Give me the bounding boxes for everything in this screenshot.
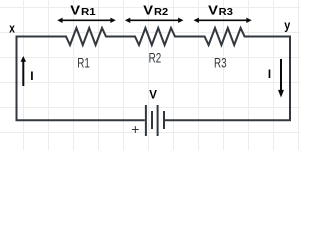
svg-text:V: V: [143, 2, 153, 17]
svg-text:y: y: [284, 18, 291, 33]
svg-text:x: x: [9, 21, 15, 36]
svg-text:R1: R1: [77, 55, 90, 70]
svg-text:+: +: [131, 121, 139, 137]
svg-text:R2: R2: [149, 50, 162, 65]
svg-text:I: I: [268, 69, 271, 81]
svg-text:V: V: [149, 90, 157, 102]
svg-text:R1: R1: [81, 6, 96, 18]
svg-text:I: I: [30, 69, 33, 83]
svg-text:V: V: [70, 2, 80, 17]
svg-text:R3: R3: [214, 55, 227, 70]
svg-text:R3: R3: [219, 6, 233, 18]
svg-text:V: V: [208, 2, 218, 17]
svg-text:R2: R2: [154, 6, 168, 18]
